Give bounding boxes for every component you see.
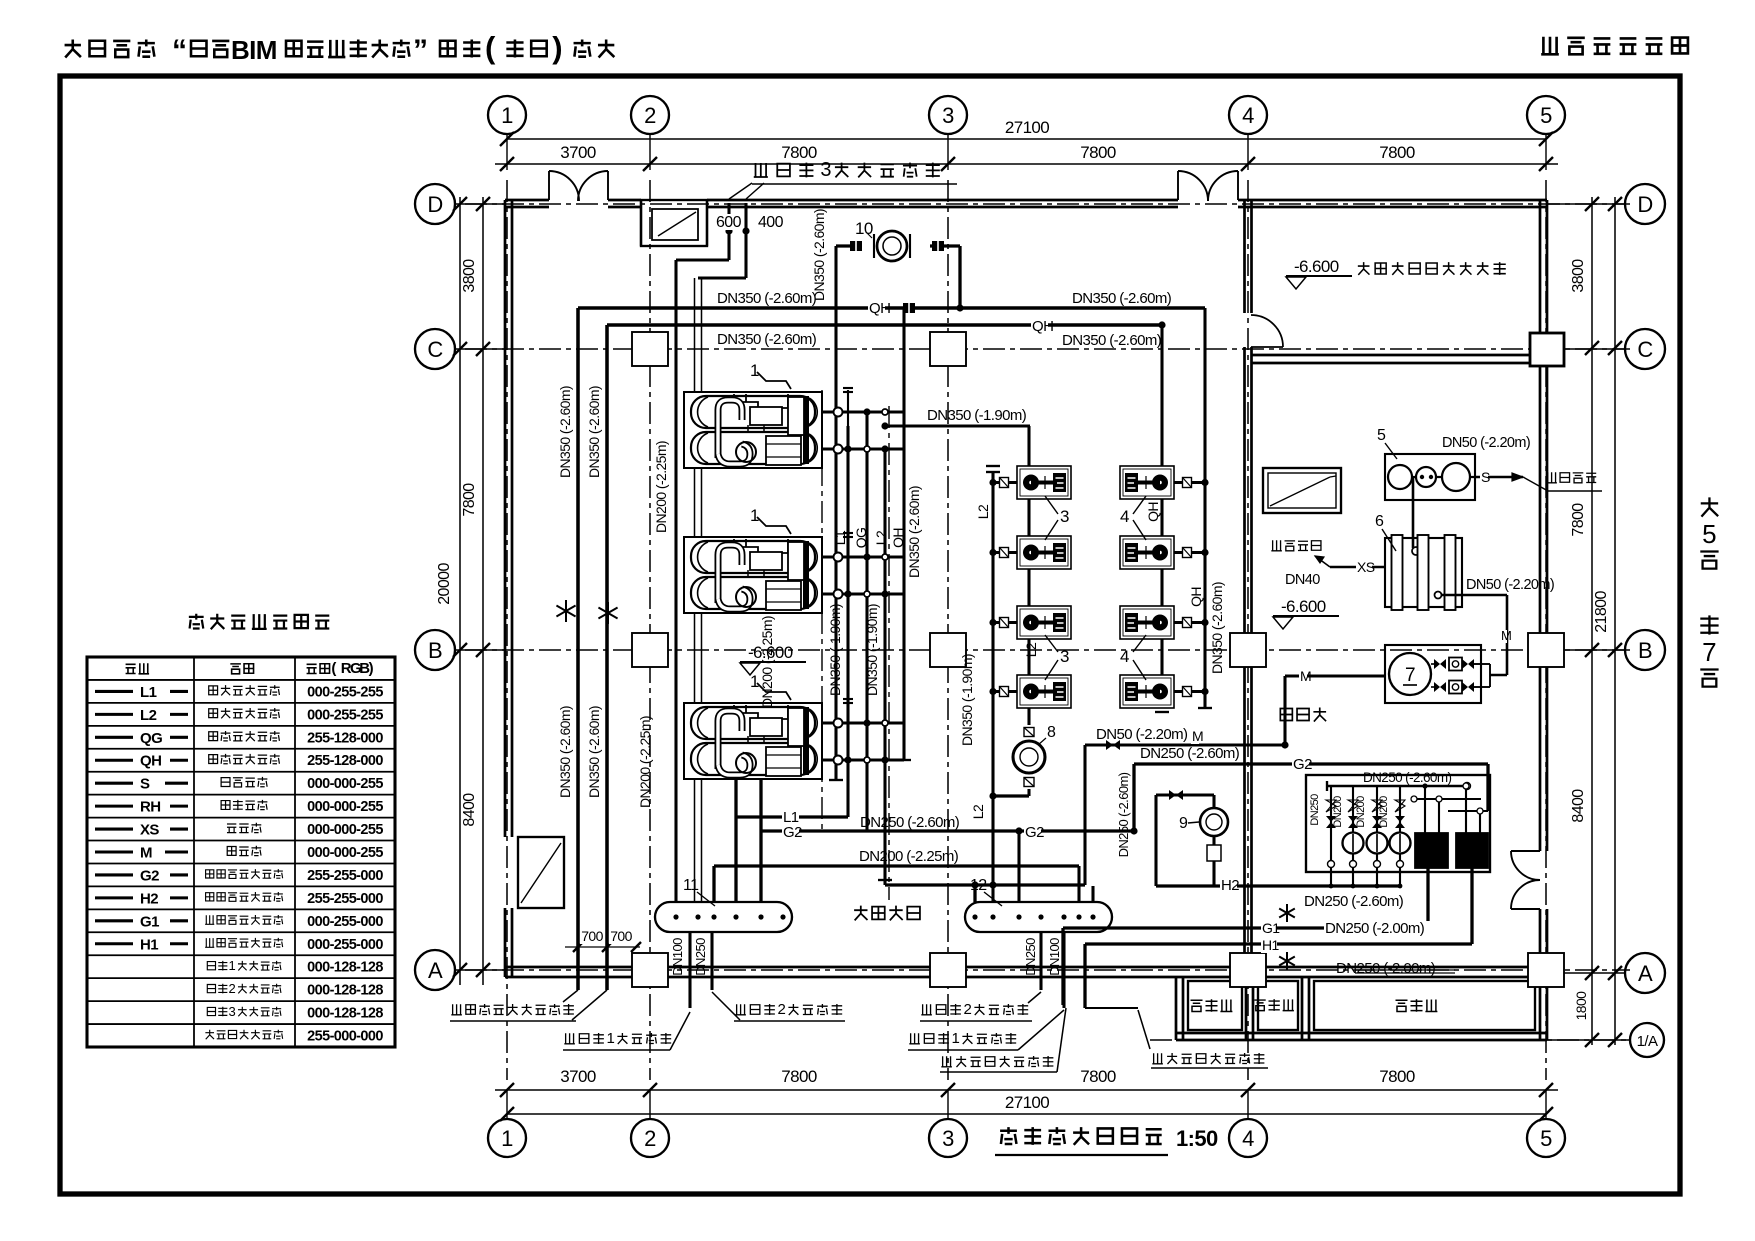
svg-text:): ) (369, 660, 374, 677)
svg-text:4: 4 (1242, 1126, 1254, 1151)
svg-text:000-255-255: 000-255-255 (307, 684, 383, 700)
chiller stubs (822, 410, 904, 413)
well rooms inner boxes (1188, 981, 1242, 1030)
svg-text:L2: L2 (975, 504, 991, 519)
leader cooling tower pipes (577, 985, 579, 990)
softener tank 6 (1385, 538, 1462, 607)
legend table frame (87, 657, 395, 1047)
leader boiler return (1152, 1053, 1163, 1064)
svg-text:7800: 7800 (1379, 1067, 1415, 1086)
svg-text:4: 4 (1242, 103, 1254, 128)
svg-text:3: 3 (1060, 647, 1069, 666)
leader building2 return (921, 1004, 932, 1015)
group header DN250 (1327, 785, 1467, 788)
svg-text:G2: G2 (1293, 756, 1312, 773)
legend table title (189, 614, 204, 629)
DN350 -1.90 h3 (885, 424, 1030, 427)
DN200 -2.25 horizontal (714, 864, 1079, 867)
svg-text:3700: 3700 (560, 1067, 596, 1086)
svg-text:-6.600: -6.600 (1294, 257, 1339, 276)
svg-text:G2: G2 (783, 824, 802, 841)
legend row 冷冻水回水管 (95, 713, 133, 716)
svg-text:RH: RH (140, 799, 160, 816)
legend row 二次采暖回水管 (95, 896, 133, 899)
legend row 二次采暖供水管 (95, 873, 133, 876)
svg-text:5: 5 (1377, 427, 1386, 444)
structural columns (open) (632, 332, 668, 366)
chiller 1-3 (684, 703, 822, 779)
svg-text:1: 1 (952, 1030, 960, 1047)
leader boiler supply (941, 1056, 952, 1067)
grid row bubbles right (1625, 184, 1665, 224)
svg-text:DN350 (-2.60m): DN350 (-2.60m) (586, 386, 602, 478)
pipe QH DN350 h1 (578, 306, 1205, 310)
svg-text:1: 1 (750, 506, 759, 525)
grid centerlines dashed (506, 180, 508, 1080)
svg-text:4: 4 (1120, 507, 1129, 526)
pump 4-3 (1120, 606, 1174, 639)
svg-text:1: 1 (750, 361, 759, 380)
svg-text:DN250: DN250 (1023, 938, 1038, 976)
svg-text:DN350 (-2.60m): DN350 (-2.60m) (717, 331, 817, 348)
XS drain line (1330, 566, 1385, 569)
suction stub (993, 551, 1017, 554)
svg-text:600: 600 (716, 214, 742, 231)
svg-text:DN250 (-2.00m): DN250 (-2.00m) (1325, 920, 1425, 937)
svg-text:DN200: DN200 (1332, 796, 1344, 828)
L2-header12 link h885 (885, 883, 1085, 886)
legend row 自来水管 (95, 782, 133, 785)
svg-text:9: 9 (1179, 815, 1188, 832)
svg-text:DN200: DN200 (1378, 796, 1390, 828)
suction stub (993, 481, 1017, 484)
legend row 建筑2供回水管 (207, 984, 215, 992)
svg-text:1:50: 1:50 (1176, 1126, 1218, 1151)
pump 3-4 (1017, 675, 1071, 708)
discharge stub (1174, 481, 1205, 484)
legend row 建筑1供回水管 (207, 962, 215, 970)
svg-text:M: M (1300, 668, 1311, 684)
svg-text:7800: 7800 (1080, 143, 1116, 162)
svg-text:L2: L2 (970, 804, 986, 819)
legend row 建筑3供回水管 (207, 1007, 215, 1015)
L2 suction main v993 (991, 472, 994, 902)
chiller bus vertical v885 L2 (883, 448, 886, 885)
svg-text:L2: L2 (140, 707, 157, 724)
chiller 1-2 (684, 537, 822, 613)
svg-text:”: ” (413, 34, 427, 67)
right wall grid5 (1539, 200, 1542, 851)
leader building2 supply (735, 1004, 746, 1015)
legend row 冷却水供水管 (95, 736, 133, 739)
chiller bus vertical QG v836 (834, 246, 837, 780)
boiler pump branches (1330, 786, 1332, 860)
svg-text:400: 400 (758, 214, 784, 231)
svg-text:2: 2 (229, 981, 236, 996)
svg-text:XS: XS (1357, 559, 1375, 575)
svg-text:1: 1 (607, 1030, 615, 1047)
svg-text:000-000-255: 000-000-255 (307, 799, 383, 815)
interior wall grid4 full height (1243, 200, 1246, 313)
header 12 bottom stubs (1039, 932, 1042, 990)
legend row 泄水管 (95, 828, 133, 831)
svg-text:QH: QH (1032, 318, 1053, 335)
riser jog from wall 400 (744, 203, 747, 278)
svg-text:C: C (1637, 337, 1653, 362)
svg-text:XS: XS (140, 822, 159, 839)
label drain ditch (1271, 540, 1282, 551)
svg-text:L2: L2 (873, 530, 889, 545)
meter to tank drop (1412, 477, 1415, 548)
legend header row (126, 664, 136, 673)
M DN50 horizontal (1085, 743, 1285, 746)
svg-text:H1: H1 (140, 936, 158, 953)
station label (1280, 708, 1292, 720)
DN200 riser v676 (674, 260, 677, 902)
svg-text:DN200 (-2.25m): DN200 (-2.25m) (859, 848, 959, 865)
chiller bus vertical v867 (865, 412, 868, 831)
svg-text:D: D (1637, 192, 1652, 217)
control room label (1358, 262, 1370, 275)
svg-text:7: 7 (1405, 665, 1415, 686)
svg-text:000-000-255: 000-000-255 (307, 776, 383, 792)
svg-text:000-128-128: 000-128-128 (307, 983, 383, 999)
grid column bubbles bottom (488, 1119, 526, 1157)
svg-text:S: S (140, 776, 150, 793)
discharge stub (1174, 621, 1205, 624)
pump 4-2 (1120, 536, 1174, 569)
pipe break marks (556, 600, 575, 622)
svg-text:B: B (428, 638, 442, 663)
svg-text:DN200 (-2.25m): DN200 (-2.25m) (637, 716, 653, 808)
svg-text:L1: L1 (832, 530, 848, 545)
DN200 riser v698 double line (694, 278, 696, 902)
label city water (1546, 472, 1557, 483)
dots at wall risers (725, 227, 732, 234)
pump 8 inline (1024, 728, 1034, 737)
chiller stubs (822, 721, 904, 724)
svg-text:1/A: 1/A (1637, 1033, 1658, 1050)
svg-text:DN250 (-2.60m): DN250 (-2.60m) (1363, 770, 1451, 785)
svg-text:1: 1 (501, 1126, 513, 1151)
svg-text:DN350 (-1.90m): DN350 (-1.90m) (827, 604, 843, 696)
interior wall C of control room (1252, 354, 1540, 357)
svg-text:7800: 7800 (1080, 1067, 1116, 1086)
svg-text:DN250: DN250 (693, 938, 708, 976)
DN200 stub to header11 (712, 866, 715, 902)
svg-text:DN50 (-2.20m): DN50 (-2.20m) (1442, 435, 1530, 451)
legend row 软化水管 (95, 805, 133, 808)
svg-text:DN350 (-1.90m): DN350 (-1.90m) (864, 604, 880, 696)
sheet title top-left (65, 39, 81, 57)
DN50 M line from tank (1435, 592, 1442, 599)
svg-text:C: C (427, 337, 443, 362)
svg-text:3: 3 (942, 1126, 954, 1151)
legend row 一次采暖供水管 (95, 919, 133, 922)
pipe QH DN350 h2 (607, 323, 1162, 327)
svg-text:3: 3 (1060, 507, 1069, 526)
legend row 锅炉房供回水管 (205, 1030, 214, 1040)
room label chiller plant (854, 906, 867, 921)
G2 riser from header (759, 780, 762, 902)
hx unit 7 (1385, 645, 1481, 703)
society name top-right (1541, 37, 1559, 55)
svg-text:A: A (1638, 961, 1653, 986)
pump 4-1 (1120, 466, 1174, 499)
riser jog from wall 600 (727, 203, 730, 260)
svg-text:5: 5 (1702, 519, 1716, 549)
svg-text:DN350 (-1.90m): DN350 (-1.90m) (959, 654, 975, 746)
label connect building3 supply/return (754, 163, 768, 177)
svg-text:8400: 8400 (1570, 789, 1587, 823)
svg-text:D: D (427, 192, 442, 217)
leader building1 return (909, 1033, 920, 1044)
svg-text:QH: QH (890, 528, 906, 548)
svg-text:700: 700 (610, 928, 632, 944)
svg-text:000-255-000: 000-255-000 (307, 937, 383, 953)
drawing title bottom (1000, 1127, 1017, 1144)
svg-text:27100: 27100 (1005, 1093, 1049, 1112)
svg-text:000-255-000: 000-255-000 (307, 914, 383, 930)
svg-text:DN350 (-2.60m): DN350 (-2.60m) (557, 386, 573, 478)
top dimension line segments (495, 163, 1558, 165)
svg-text:L1: L1 (140, 684, 157, 701)
svg-text:DN350 (-2.60m): DN350 (-2.60m) (586, 706, 602, 798)
leader to building3 pipes (729, 183, 752, 199)
pump 4-4 (1120, 675, 1174, 708)
svg-text:000-000-255: 000-000-255 (307, 822, 383, 838)
header 11 (655, 902, 792, 932)
double door top-left (548, 171, 550, 200)
svg-text:000-128-128: 000-128-128 (307, 960, 383, 976)
svg-text:QH: QH (1188, 587, 1204, 607)
pump 10 (877, 231, 907, 261)
svg-text:(: ( (331, 660, 336, 677)
svg-text:QH: QH (869, 300, 890, 317)
svg-text:1: 1 (229, 958, 236, 973)
legend row 一次采暖回水管 (95, 942, 133, 945)
room label exhaust well 2 (1254, 1000, 1265, 1011)
svg-text:DN50 (-2.20m): DN50 (-2.20m) (1096, 726, 1188, 743)
svg-text:G1: G1 (1262, 920, 1280, 936)
pump10 connection right (930, 244, 960, 247)
vent opening in top wall (641, 200, 707, 246)
svg-text:QG: QG (140, 730, 162, 747)
svg-text:DN350 (-2.60m): DN350 (-2.60m) (1062, 332, 1162, 349)
svg-text:QH: QH (140, 753, 161, 770)
svg-text:H2: H2 (1221, 877, 1239, 894)
svg-text:255-128-000: 255-128-000 (307, 753, 383, 769)
double door top near grid4 (1177, 171, 1179, 200)
svg-text:G2: G2 (140, 867, 159, 884)
svg-text:12: 12 (970, 877, 987, 894)
header 11 bottom stubs (688, 932, 691, 1008)
pump 9 riser (1156, 793, 1214, 796)
svg-text:000-128-128: 000-128-128 (307, 1006, 383, 1022)
svg-text:DN200 (-2.25m): DN200 (-2.25m) (653, 441, 669, 533)
svg-text:DN250 (-2.60m): DN250 (-2.60m) (1116, 772, 1131, 857)
chiller bus vertical v848 L1 (846, 426, 849, 817)
top wall D (505, 199, 549, 202)
grid row bubbles left (415, 184, 455, 224)
svg-text:DN100: DN100 (1047, 938, 1062, 976)
svg-text:DN350 (-1.90m): DN350 (-1.90m) (927, 407, 1027, 424)
G2 to boiler group (1134, 762, 1488, 765)
boiler hx black units (1415, 833, 1448, 868)
svg-text:11: 11 (683, 877, 699, 894)
discharge stub (1174, 551, 1205, 554)
svg-text:21800: 21800 (1593, 591, 1610, 633)
svg-text:8: 8 (1047, 724, 1056, 741)
svg-text:1: 1 (750, 672, 759, 691)
bottom dimension line total (507, 1113, 1546, 1115)
svg-text:DN250: DN250 (1309, 794, 1321, 826)
svg-text:7800: 7800 (781, 1067, 817, 1086)
window in left wall (518, 837, 564, 908)
left wall grid1 (504, 200, 507, 837)
suction stub (993, 690, 1017, 693)
equipment axis dashed (821, 390, 823, 830)
chiller bus vertical QH v904 (902, 308, 905, 760)
window segment in wall A (1355, 969, 1455, 971)
svg-text:DN350 (-2.60m): DN350 (-2.60m) (717, 290, 817, 307)
svg-text:6: 6 (1375, 513, 1384, 530)
svg-text:700: 700 (581, 928, 603, 944)
discharge stub (1174, 690, 1205, 693)
svg-text:QH: QH (1145, 502, 1161, 522)
svg-text:DN250 (-2.60m): DN250 (-2.60m) (1140, 745, 1240, 762)
svg-text:DN350 (-2.60m): DN350 (-2.60m) (906, 486, 922, 578)
svg-text:DN350 (-2.60m): DN350 (-2.60m) (557, 706, 573, 798)
room label exhaust well 1 (1191, 1000, 1203, 1011)
legend row 补水管 (95, 850, 133, 853)
bottom wells walls (1175, 977, 1178, 1040)
left dimension lines (459, 197, 461, 985)
svg-text:1800: 1800 (1573, 991, 1589, 1021)
svg-text:DN350 (-2.60m): DN350 (-2.60m) (1072, 290, 1172, 307)
H2 line (1156, 884, 1400, 887)
svg-text:DN350 (-2.60m): DN350 (-2.60m) (1209, 582, 1225, 674)
svg-text:10: 10 (855, 219, 873, 238)
svg-text:7800: 7800 (1379, 143, 1415, 162)
M line into hx (1285, 674, 1386, 677)
pipe labels horizontal (868, 301, 885, 316)
control room door (1251, 346, 1283, 348)
L2 discharge main v1029 through pumps (1027, 426, 1030, 725)
boiler pump group frame (1306, 775, 1490, 872)
H1 line (1085, 942, 1472, 945)
svg-text:5: 5 (1540, 103, 1552, 128)
hx window (1263, 468, 1341, 513)
svg-text:BIM: BIM (231, 35, 277, 65)
svg-text:7: 7 (1702, 637, 1716, 667)
grid column bubbles top (488, 96, 526, 134)
svg-text:S: S (1481, 469, 1490, 485)
legend row 冷却水回水管 (95, 759, 133, 762)
svg-text:1: 1 (501, 103, 513, 128)
svg-text:2: 2 (644, 1126, 656, 1151)
svg-text:B: B (1638, 638, 1652, 663)
water meter group 5 (1385, 454, 1475, 500)
svg-text:DN40: DN40 (1285, 572, 1320, 588)
svg-text:3800: 3800 (1570, 259, 1587, 293)
cooling water riser DN350 v578 (576, 308, 580, 990)
svg-text:7800: 7800 (461, 483, 478, 517)
S line to city water (1475, 476, 1523, 479)
dim 700 700 (565, 946, 640, 948)
pump 3-3 (1017, 606, 1071, 639)
svg-text:4: 4 (1120, 647, 1129, 666)
svg-text:3: 3 (942, 103, 954, 128)
svg-text:3: 3 (229, 1004, 236, 1019)
svg-text:H2: H2 (140, 890, 158, 907)
G1 line (1063, 926, 1428, 929)
chiller stubs (822, 555, 904, 558)
svg-text:255-000-000: 255-000-000 (307, 1029, 383, 1045)
svg-text:DN50 (-2.20m): DN50 (-2.20m) (1466, 577, 1554, 593)
svg-text:M: M (1501, 628, 1511, 643)
svg-text:G2: G2 (1025, 824, 1044, 841)
svg-text:G1: G1 (140, 913, 159, 930)
svg-text:5: 5 (1540, 1126, 1552, 1151)
svg-text:): ) (552, 30, 562, 65)
svg-text:7800: 7800 (781, 143, 817, 162)
svg-text:3: 3 (820, 159, 831, 181)
svg-text:3800: 3800 (461, 259, 478, 293)
cooling water riser DN350 v607 (605, 325, 609, 990)
svg-text:-6.600: -6.600 (1281, 597, 1326, 616)
svg-text:255-255-000: 255-255-000 (307, 868, 383, 884)
bottom dimension line segments (495, 1089, 1558, 1091)
svg-text:27100: 27100 (1005, 118, 1049, 137)
svg-text:8400: 8400 (461, 793, 478, 827)
svg-text:DN250 (-2.60m): DN250 (-2.60m) (860, 814, 960, 831)
L1 riser from header (734, 780, 737, 902)
QH riser v1162 col4 (1160, 325, 1163, 708)
pump 3-2 (1017, 536, 1071, 569)
svg-text:A: A (428, 958, 443, 983)
suction stub (993, 621, 1017, 624)
boiler group right piping (1414, 798, 1481, 800)
leader building1 supply (564, 1033, 575, 1044)
svg-text:-6.600: -6.600 (748, 643, 793, 662)
bottom wall A (505, 966, 1547, 969)
header 12 top stubs (1017, 831, 1020, 902)
QH main v1205 (1203, 308, 1206, 708)
top dimension line total 27100 (507, 138, 1546, 140)
page number right margin (1701, 497, 1718, 516)
svg-text:M: M (140, 845, 152, 862)
svg-text:DN350 (-2.60m): DN350 (-2.60m) (811, 209, 827, 301)
svg-text:2: 2 (778, 1001, 786, 1018)
svg-text:DN250 (-2.00m): DN250 (-2.00m) (1336, 960, 1436, 977)
svg-text:2: 2 (644, 103, 656, 128)
legend row 冷冻水供水管 (95, 690, 133, 693)
svg-text:3700: 3700 (560, 143, 596, 162)
double door right wall (1511, 850, 1540, 852)
dim 600/400 (715, 214, 742, 230)
svg-text:255-128-000: 255-128-000 (307, 730, 383, 746)
svg-text:000-000-255: 000-000-255 (307, 845, 383, 861)
svg-text:7800: 7800 (1570, 503, 1587, 537)
svg-text:(: ( (485, 30, 496, 65)
pump10 connection left (836, 244, 862, 247)
right dimension lines (1591, 197, 1593, 1045)
svg-text:20000: 20000 (436, 563, 453, 605)
chiller 1-1 (684, 392, 822, 468)
G2 horizontal long (761, 829, 1134, 832)
L1 horizontal (736, 815, 848, 818)
